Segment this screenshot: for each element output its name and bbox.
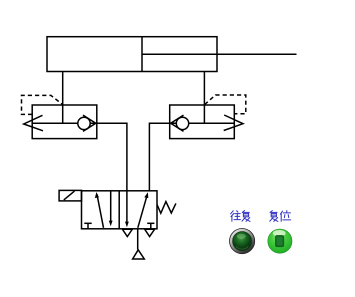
flow control valve V2 body [170, 105, 235, 139]
V3 right cell blocked port T [147, 223, 154, 229]
V1 inlet line [62, 105, 64, 123]
V3 left cell diagonal flow arrow [95, 192, 104, 228]
exhaust triangle port 5 [122, 229, 132, 236]
V3 left cell vertical flow arrow [109, 191, 113, 227]
wire cylinder left port to valve V1 [62, 72, 64, 106]
V1 flow path line [32, 122, 97, 124]
wire V1 outlet to valve V3 port 4 [97, 123, 127, 191]
V3 right cell diagonal flow arrow [138, 192, 149, 228]
V2 inlet line [203, 105, 205, 123]
V1 adjustment dashed box [22, 95, 64, 114]
V2 flow path line [170, 122, 235, 124]
compressed air source [133, 250, 145, 259]
cylinder body [47, 37, 217, 72]
supply line port 1 [137, 229, 139, 250]
wire cylinder right port to valve V2 [203, 72, 205, 106]
cylinder piston rod [142, 53, 297, 55]
cylinder piston [141, 37, 143, 72]
V1 check valve [78, 115, 96, 131]
label 往复 [231, 211, 250, 222]
button 复位 (reset) [267, 229, 292, 254]
directional valve V3 body [82, 191, 158, 229]
button 往复 (reciprocate) [230, 229, 255, 254]
V2 check valve [171, 115, 189, 131]
directional valve V3 position divider [118, 191, 120, 229]
exhaust triangle port 3 [145, 229, 155, 236]
V3 right cell vertical flow arrow [125, 191, 129, 228]
return spring [157, 202, 176, 214]
V1 throttle arrow [24, 115, 43, 131]
label 复位 [270, 211, 291, 222]
V2 throttle arrow [224, 115, 243, 131]
flow control valve V1 body [32, 105, 97, 139]
V2 adjustment dashed box [205, 95, 246, 114]
manual lever actuator [59, 190, 81, 201]
V3 left cell blocked port T [84, 223, 91, 229]
wire V2 outlet to valve V3 port 2 [149, 123, 169, 191]
